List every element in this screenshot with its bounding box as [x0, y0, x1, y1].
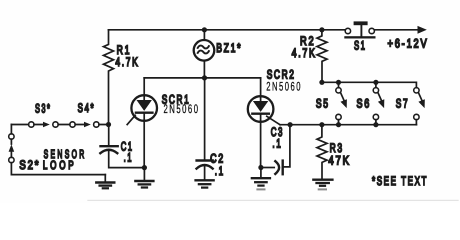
svg-text:.1: .1	[272, 137, 282, 151]
capacitor C1 curved plate	[100, 150, 117, 154]
svg-text:4.7K: 4.7K	[115, 55, 139, 69]
svg-text:2N5060: 2N5060	[164, 102, 200, 116]
svg-text:S7: S7	[396, 96, 409, 110]
ground G1 sensor loop return	[96, 175, 114, 189]
wire top supply rail left segment	[109, 29, 346, 31]
node dot anode bus / BZ1 / C2	[202, 75, 207, 80]
wire anode bus SCR1 to SCR2	[144, 77, 260, 79]
wire gate bus SCR2 to switches	[280, 124, 416, 126]
svg-text:+6-12V: +6-12V	[388, 37, 429, 51]
switch S5 arrow actuator	[341, 93, 344, 100]
capacitor C3 left lead	[261, 167, 274, 169]
SCR2 gate lead	[267, 116, 280, 124]
terminal circle sensor b	[53, 122, 58, 127]
capacitor C3 straight plate	[282, 161, 284, 175]
node dot switch bus S6	[373, 80, 378, 85]
SCR U1 SCR1 circle	[131, 95, 157, 121]
switch S6 upper terminal	[373, 88, 378, 93]
pushbutton S1 stem	[360, 25, 362, 36]
pushbutton S1 contact circles	[345, 28, 350, 33]
node dot rail/BZ1	[202, 27, 207, 32]
capacitor C3 curved plate	[275, 161, 279, 174]
svg-text:S6: S6	[357, 97, 372, 111]
node dot rail/R2	[319, 27, 324, 32]
SCR1 gate lead	[127, 115, 135, 124]
resistor R3	[317, 125, 327, 179]
buzzer BZ1 AC waves	[198, 46, 209, 54]
wire top supply rail right segment with arrow	[374, 29, 418, 31]
node dot gate bus / C3 riser	[288, 122, 293, 127]
switch S7 arrow actuator	[419, 93, 422, 100]
switch S6 top stub	[375, 82, 377, 87]
capacitor C2 top plate	[197, 159, 213, 161]
switch S7 bottom stub	[415, 120, 417, 125]
node dot C1/SCR1 cathode	[142, 165, 147, 170]
svg-text:2N5060: 2N5060	[266, 79, 302, 93]
capacitor C1 bottom lead to cathode junction	[109, 151, 145, 167]
svg-text:.1: .1	[124, 151, 133, 165]
node dot SCR2 cathode / C3	[258, 165, 263, 170]
switch S7 upper terminal	[414, 88, 419, 93]
SCR2 triangle	[253, 101, 268, 112]
node dot gate bus S5	[336, 122, 341, 127]
SCR2 cathode lead	[260, 114, 262, 168]
arrow sensor loop right 2	[84, 122, 91, 127]
terminal circle sensor c	[70, 122, 75, 127]
svg-text:47K: 47K	[328, 153, 351, 167]
switch S5 top stub	[338, 82, 340, 87]
node dot R2 / switch bus	[319, 80, 324, 85]
ground G5 under R3	[313, 180, 332, 190]
svg-text:S3*: S3*	[35, 101, 51, 115]
resistor R2	[317, 30, 327, 83]
svg-text:S1: S1	[354, 38, 367, 52]
SCR1 anode lead	[143, 78, 145, 100]
capacitor C1 lead from junction	[108, 125, 110, 146]
svg-text:S4*: S4*	[78, 101, 96, 115]
wire sensor loop top line	[11, 124, 108, 126]
node dot gate bus S6	[373, 122, 378, 127]
terminal circle sensor d	[94, 122, 99, 127]
switch S7 lower terminal	[414, 114, 419, 119]
SCR2 cathode bar	[252, 113, 269, 115]
pushbutton S1 bridge bar	[344, 36, 375, 38]
wire sensor loop left drop	[11, 125, 105, 175]
terminal circle S2 upper	[9, 134, 14, 139]
svg-text:.1: .1	[215, 164, 225, 178]
ground G4 under SCR2	[252, 168, 270, 190]
switch S6 lower terminal	[373, 114, 378, 119]
arrowhead +V rail end	[418, 26, 427, 34]
svg-text:S2*: S2*	[19, 158, 40, 172]
svg-text:*SEE TEXT: *SEE TEXT	[372, 174, 428, 188]
buzzer BZ1 leads	[203, 30, 205, 78]
scan artifact bottom smudge	[88, 199, 458, 201]
node dot R1/gate/C1 junction	[106, 122, 111, 127]
buzzer BZ1 circle	[194, 40, 215, 61]
ground G2 under SCR1	[135, 168, 153, 188]
SCR1 cathode lead	[143, 113, 145, 168]
node dot gate bus / R3	[319, 122, 324, 127]
switch S6 bottom stub	[375, 120, 377, 125]
capacitor C2 top lead	[204, 78, 206, 159]
svg-text:LOOP: LOOP	[43, 158, 77, 172]
capacitor C1 top plate	[101, 145, 118, 147]
wire switch top bus from R2	[322, 82, 417, 87]
arrow sensor loop right 1	[43, 122, 50, 127]
resistor R1	[104, 30, 114, 125]
switch S5 lower terminal	[336, 114, 341, 119]
switch S6 arrow actuator	[378, 93, 381, 100]
SCR1 cathode bar	[136, 112, 153, 114]
SCR1 triangle	[137, 100, 152, 111]
SCR2 anode lead	[260, 78, 262, 101]
capacitor C3 right lead and riser to gate bus	[284, 125, 290, 167]
arrow sensor loop up	[9, 144, 15, 151]
node dot switch bus S5	[336, 80, 341, 85]
terminal circle sensor a	[29, 122, 34, 127]
terminal circle S2 lower	[9, 157, 14, 162]
svg-text:4.7K: 4.7K	[292, 46, 317, 60]
switch S5 bottom stub	[338, 120, 340, 125]
SCR U2 SCR2 circle	[248, 96, 274, 122]
ground G3 under C2	[196, 167, 214, 188]
capacitor C2 curved plate	[197, 165, 213, 169]
svg-text:BZ1*: BZ1*	[216, 41, 242, 55]
switch S5 upper terminal	[336, 88, 341, 93]
pushbutton S1 button cap	[354, 21, 368, 25]
svg-text:S5: S5	[316, 97, 330, 111]
